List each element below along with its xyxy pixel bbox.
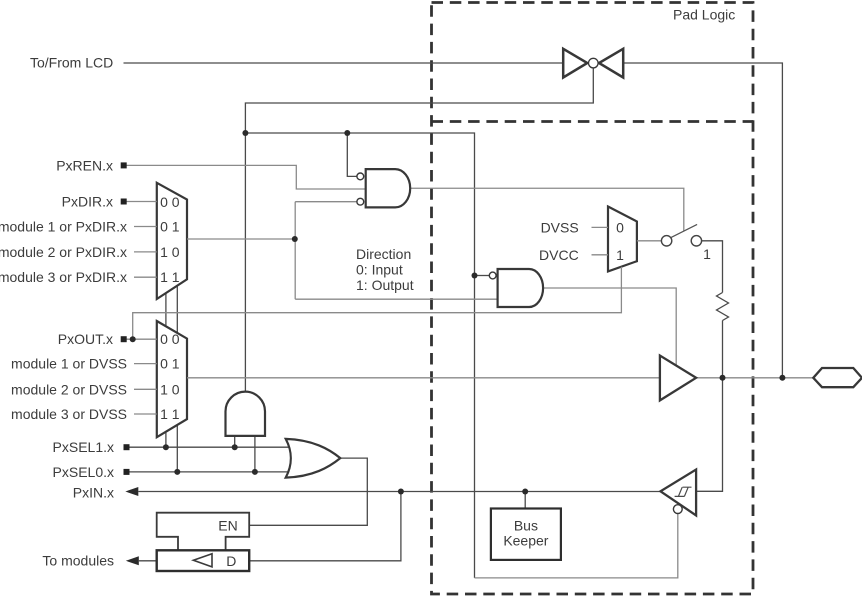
transmission gate right triangle [599, 49, 623, 78]
junction node sel1 mux [163, 444, 169, 450]
transmission gate left triangle [563, 49, 587, 78]
wire resistor to pad node [722, 321, 724, 378]
PxDIR.x source square [121, 199, 127, 205]
junction node sel0 mux [174, 469, 180, 475]
wire node to U2 bubble [475, 275, 490, 277]
svg-text:0: 0 [616, 219, 624, 235]
wire To modules [139, 560, 157, 562]
transmission gate circle [589, 58, 599, 68]
pad logic inner dashed divider [432, 120, 754, 123]
and gate U2 direction [498, 269, 543, 307]
wire To/From LCD [124, 62, 564, 64]
wire module1 DVSS stub [134, 363, 157, 365]
wire U1 output to switch [410, 188, 683, 231]
PxSEL0.x source square [124, 469, 130, 475]
wire module3 DVSS stub [134, 413, 157, 415]
wire buffer output to pad [696, 377, 813, 379]
wire pad node to schmitt input [696, 378, 722, 492]
svg-text:0 0: 0 0 [160, 331, 180, 347]
wire module2 PxDIR stub [134, 251, 157, 253]
junction node resistor pad [720, 375, 726, 381]
junction node PxIN D branch [398, 489, 404, 495]
wire mux M2 output to buffer [187, 377, 660, 379]
wire DVCC stub [592, 254, 609, 256]
wire mux M1 output [187, 238, 295, 240]
junction node bus keeper [522, 489, 528, 495]
EN register box [157, 513, 250, 551]
svg-text:Direction: Direction [356, 246, 411, 262]
svg-text:PxREN.x: PxREN.x [56, 157, 113, 173]
svg-text:PxIN.x: PxIN.x [73, 484, 114, 500]
switch SW1 circle right [691, 236, 701, 246]
svg-text:0: Input: 0: Input [356, 262, 403, 278]
output buffer U5 [660, 356, 696, 401]
wire node branch y133 [245, 133, 474, 578]
wire to U2 bottom input [295, 298, 497, 300]
PxREN.x source square [121, 162, 127, 168]
svg-text:1: Output: 1: Output [356, 277, 414, 293]
or gate U4 [286, 439, 341, 478]
svg-text:Pad Logic: Pad Logic [673, 6, 735, 22]
wire DVSS stub [592, 226, 609, 228]
To modules arrowhead [126, 556, 139, 565]
wire mux select vertical right [176, 286, 178, 472]
svg-text:EN: EN [218, 517, 237, 533]
svg-text:D: D [226, 553, 236, 569]
svg-text:To/From LCD: To/From LCD [30, 55, 113, 71]
switch SW1 lever [671, 224, 697, 237]
wire PxIN.x line from schmitt [138, 491, 660, 493]
wire PxDIR.x stub [127, 201, 157, 203]
PxOUT.x source square [121, 336, 127, 342]
nand gate U1 [366, 169, 410, 207]
svg-text:module 2 or PxDIR.x: module 2 or PxDIR.x [0, 244, 127, 260]
wire module1 PxDIR stub [134, 226, 157, 228]
svg-text:1: 1 [616, 247, 624, 263]
svg-text:PxSEL0.x: PxSEL0.x [53, 464, 114, 480]
svg-text:module 1 or PxDIR.x: module 1 or PxDIR.x [0, 219, 127, 235]
svg-text:DVCC: DVCC [539, 247, 579, 263]
wire U3 input stub right [254, 436, 256, 472]
pad hexagon [813, 368, 862, 387]
svg-text:PxOUT.x: PxOUT.x [58, 331, 113, 347]
svg-text:module 1 or DVSS: module 1 or DVSS [11, 356, 127, 372]
junction node mux M1 output [292, 236, 298, 242]
wire to U1 bottom input [295, 201, 357, 203]
mux M1 PxDIR select [157, 183, 187, 299]
wire module2 DVSS stub [134, 388, 157, 390]
mux M2 PxOUT select [157, 321, 187, 437]
svg-text:PxSEL1.x: PxSEL1.x [53, 439, 114, 455]
and gate U3 PxSEL [226, 392, 266, 436]
D register box [157, 550, 250, 571]
PxSEL1.x source square [124, 444, 130, 450]
Pad Logic outer dashed box [432, 3, 754, 595]
U1 bottom input bubble [357, 198, 364, 205]
wire mux select vertical left [165, 294, 167, 448]
schmitt trigger U6 [661, 470, 697, 516]
D register clock triangle [193, 554, 212, 567]
wire transmission gate to pad node [623, 63, 782, 378]
wire bus keeper tap [524, 492, 526, 509]
wire PxREN.x to U1 [127, 165, 366, 189]
wire U2 output to buffer enable [542, 288, 677, 365]
svg-text:1: 1 [703, 246, 711, 262]
svg-text:1 1: 1 1 [160, 406, 180, 422]
junction node LCD pad [779, 375, 785, 381]
wire switch to resistor [702, 241, 723, 293]
wire PxOUT branch to M3 select [133, 267, 622, 339]
wire PxSEL1.x line [127, 446, 293, 448]
junction node sel0 U3 [252, 469, 258, 475]
wire PxOUT.x stub [127, 338, 157, 340]
svg-text:Keeper: Keeper [503, 533, 548, 549]
switch SW1 circle left [661, 236, 671, 246]
svg-text:To modules: To modules [42, 552, 114, 568]
wire module3 PxDIR stub [134, 276, 157, 278]
svg-text:0 1: 0 1 [160, 219, 180, 235]
wire U3 input stub left [234, 436, 236, 447]
U1 top input bubble [357, 173, 364, 180]
junction node sel1 U3 [232, 444, 238, 450]
svg-text:DVSS: DVSS [541, 219, 579, 235]
svg-text:0 1: 0 1 [160, 356, 180, 372]
U2 top input bubble [489, 272, 496, 279]
wire schmitt enable [475, 514, 678, 578]
svg-text:0 0: 0 0 [160, 194, 180, 210]
U6 hysteresis symbol [675, 487, 692, 496]
svg-text:1 1: 1 1 [160, 269, 180, 285]
svg-text:PxDIR.x: PxDIR.x [62, 194, 113, 210]
svg-text:1 0: 1 0 [160, 381, 180, 397]
PxIN.x arrowhead [125, 487, 138, 496]
wire mux M3 output [637, 240, 662, 242]
wire U4 output to EN [249, 458, 367, 525]
svg-text:module 3 or PxDIR.x: module 3 or PxDIR.x [0, 269, 127, 285]
wire direction node vertical [294, 202, 296, 300]
bus keeper box [491, 509, 561, 560]
wire branch to U1 top input [347, 133, 357, 176]
U6 enable bubble [673, 505, 682, 514]
resistor R1 [717, 293, 729, 321]
junction node PxOUT branch [130, 336, 136, 342]
wire PxIN to D register [249, 492, 401, 561]
wire transmission gate enable [245, 68, 593, 392]
svg-text:module 2 or DVSS: module 2 or DVSS [11, 381, 127, 397]
wire PxSEL0.x line [127, 471, 293, 473]
mux M3 DVSS/DVCC select [608, 207, 637, 272]
junction node U2 bubble feed [472, 273, 478, 279]
svg-text:Bus: Bus [514, 517, 538, 533]
svg-text:module 3 or DVSS: module 3 or DVSS [11, 406, 127, 422]
junction node y133 right [344, 130, 350, 136]
junction node y133 left [242, 130, 248, 136]
svg-text:1 0: 1 0 [160, 244, 180, 260]
